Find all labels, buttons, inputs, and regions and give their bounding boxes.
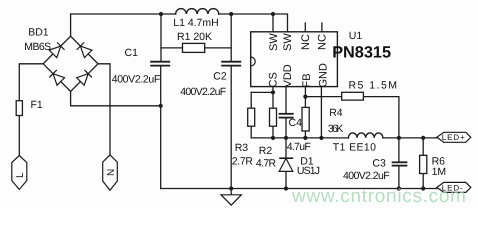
svg-text:C4: C4 xyxy=(289,117,303,129)
svg-text:PN8315: PN8315 xyxy=(332,43,391,61)
svg-text:MB6S: MB6S xyxy=(24,41,51,53)
svg-text:US1J: US1J xyxy=(297,165,320,177)
svg-text:L: L xyxy=(15,172,26,178)
svg-text:400V2.2uF: 400V2.2uF xyxy=(343,170,390,182)
svg-text:C3: C3 xyxy=(372,158,386,170)
svg-text:2.7R: 2.7R xyxy=(232,156,254,168)
svg-text:FB: FB xyxy=(301,73,313,87)
svg-text:BD1: BD1 xyxy=(28,27,49,39)
svg-text:N: N xyxy=(106,169,117,176)
svg-text:www.cntronics.com: www.cntronics.com xyxy=(291,186,466,207)
svg-text:SW: SW xyxy=(282,33,294,51)
svg-text:NC: NC xyxy=(300,34,312,50)
svg-text:CS: CS xyxy=(268,72,280,87)
svg-text:C2: C2 xyxy=(213,71,227,83)
svg-text:4.7uF: 4.7uF xyxy=(287,141,311,153)
svg-text:R5 1.5M: R5 1.5M xyxy=(349,80,398,92)
svg-text:NC: NC xyxy=(316,34,328,50)
svg-text:U1: U1 xyxy=(349,30,363,42)
svg-text:T1 EE10: T1 EE10 xyxy=(333,142,376,154)
svg-text:C1: C1 xyxy=(125,47,139,59)
svg-text:VDD: VDD xyxy=(282,64,294,87)
svg-text:GND: GND xyxy=(318,63,330,88)
svg-text:1M: 1M xyxy=(432,166,447,178)
svg-text:4.7R: 4.7R xyxy=(256,158,277,170)
svg-text:LED+: LED+ xyxy=(442,133,465,142)
svg-text:R4: R4 xyxy=(329,107,343,119)
svg-text:R2: R2 xyxy=(259,145,273,157)
svg-text:R1 20K: R1 20K xyxy=(177,31,212,43)
svg-text:SW: SW xyxy=(268,33,280,51)
svg-text:400V2.2uF: 400V2.2uF xyxy=(112,74,161,86)
svg-text:R3: R3 xyxy=(235,142,249,154)
svg-text:F1: F1 xyxy=(31,99,43,111)
svg-text:L1 4.7mH: L1 4.7mH xyxy=(173,17,218,29)
svg-text:400V2.2uF: 400V2.2uF xyxy=(180,86,226,98)
svg-text:36K: 36K xyxy=(328,123,344,135)
